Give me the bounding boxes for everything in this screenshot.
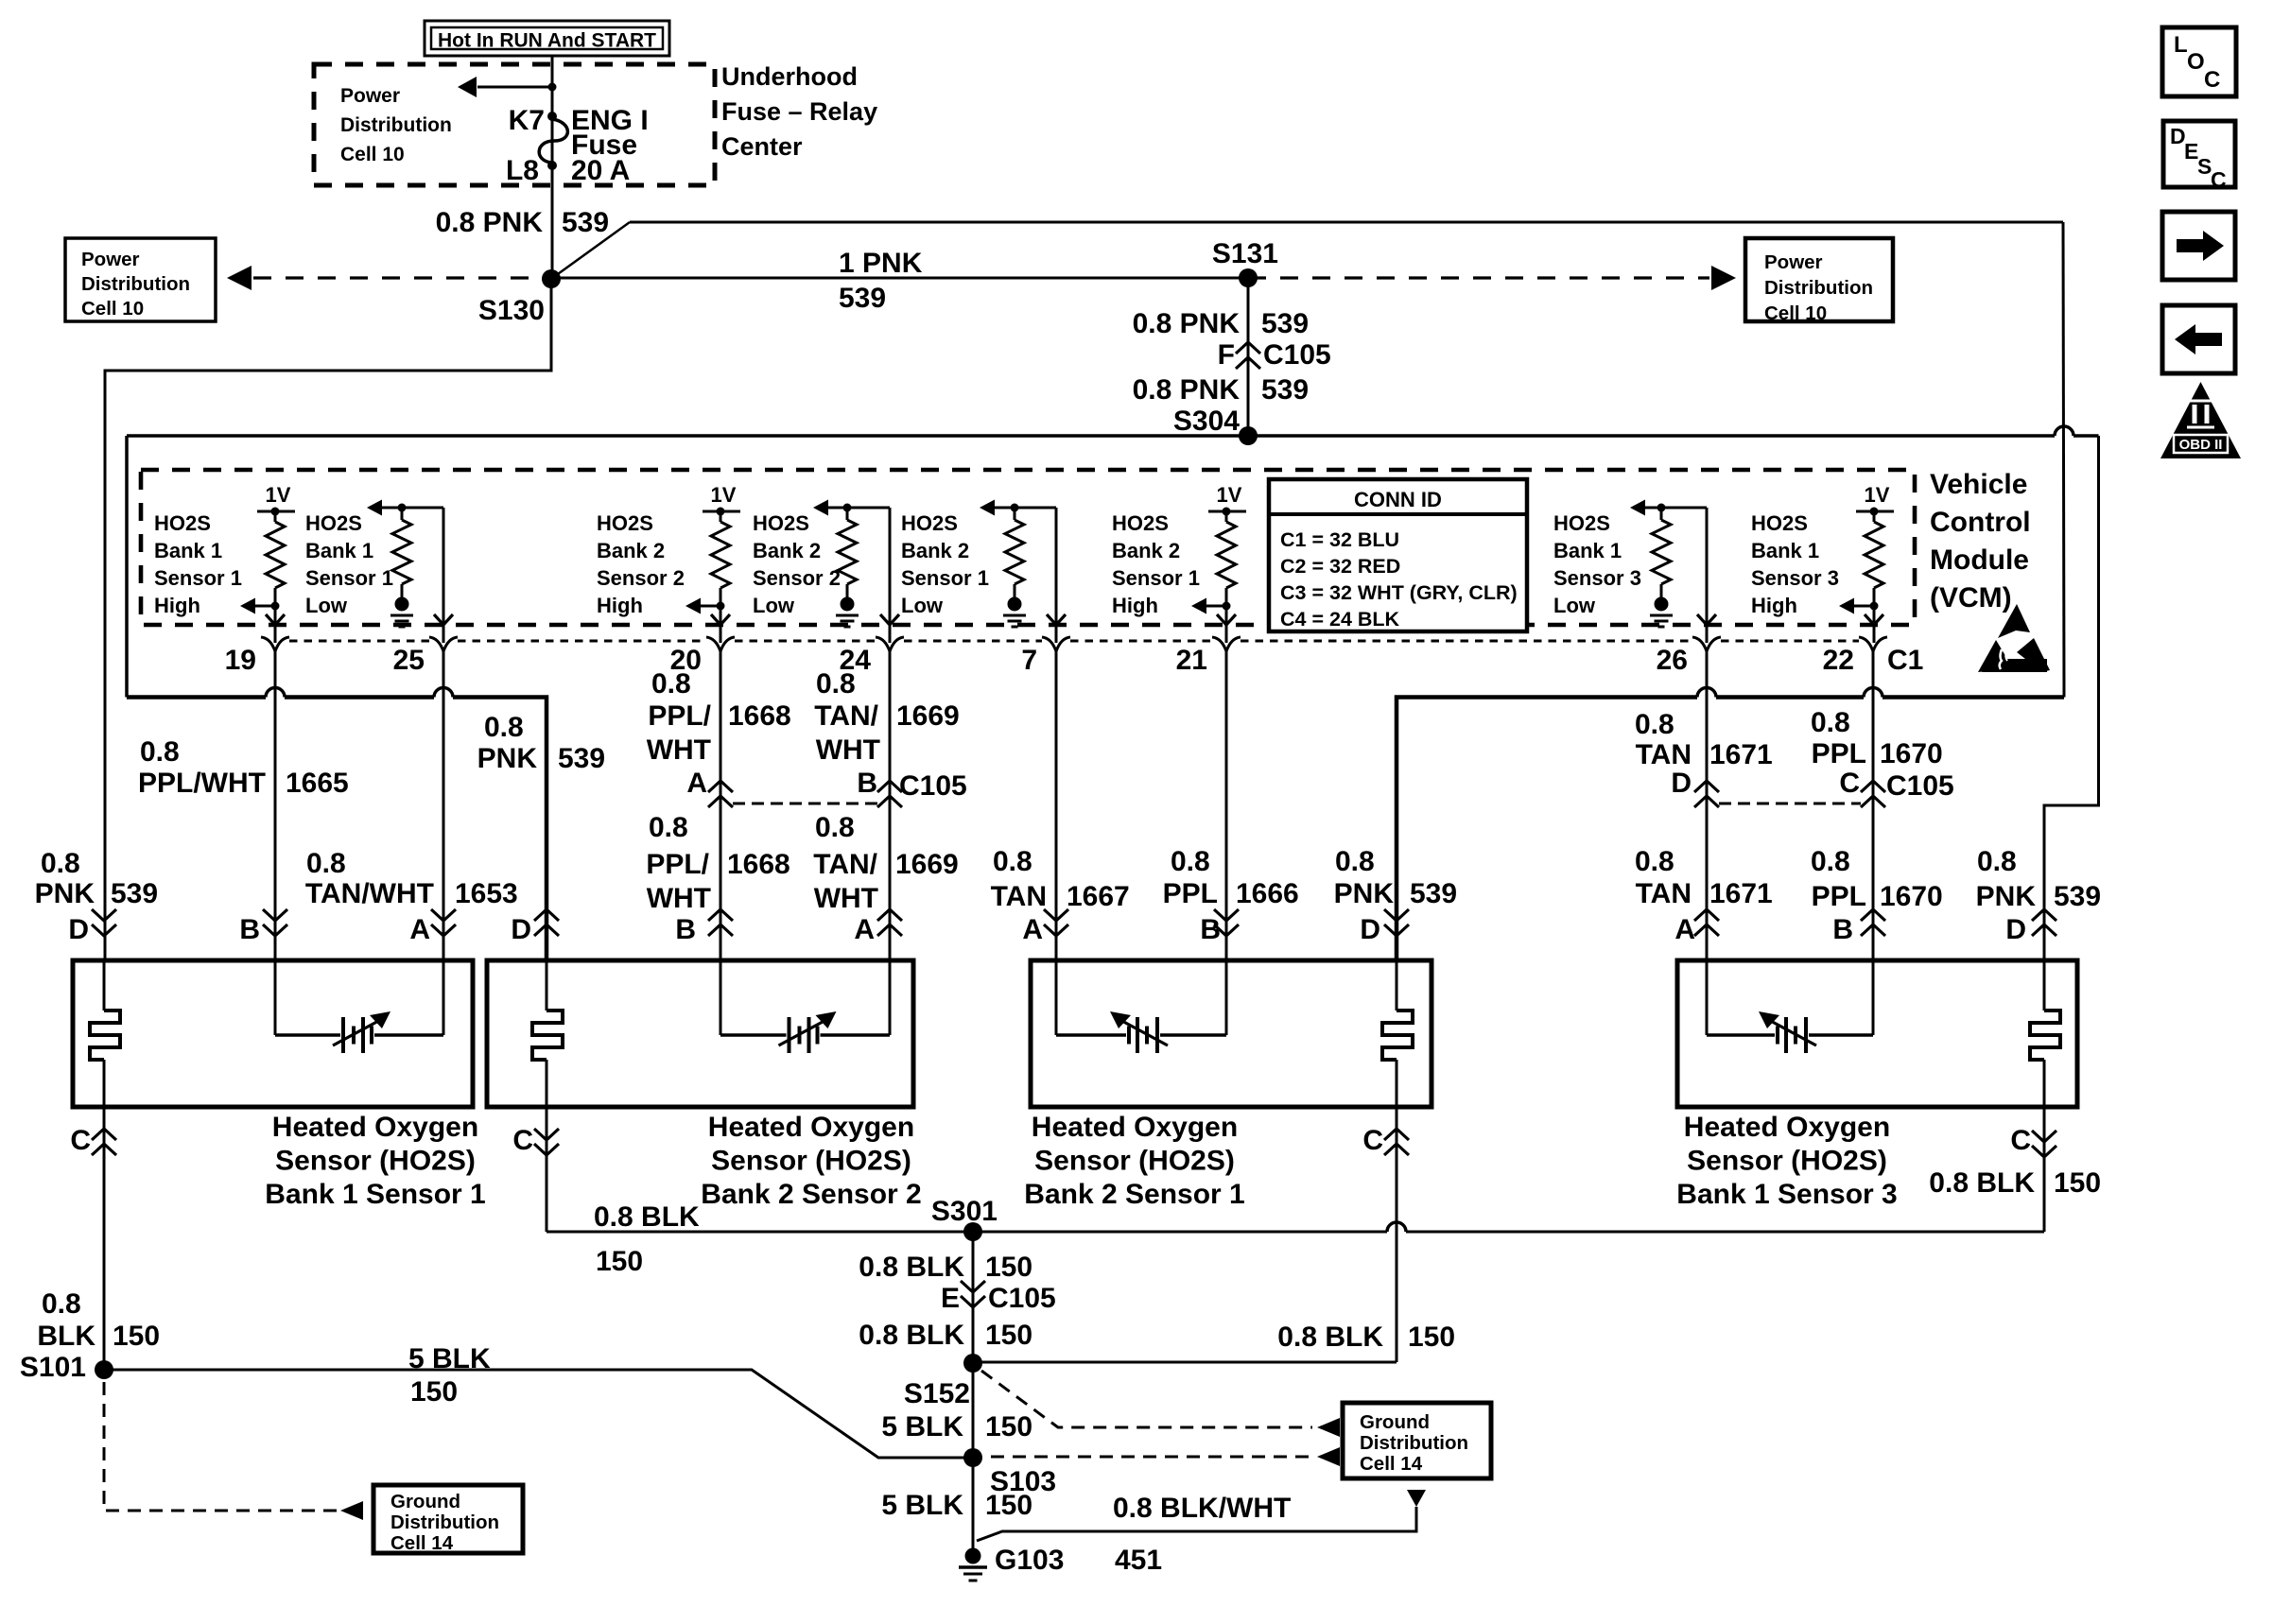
svg-text:0.8 PNK: 0.8 PNK: [1133, 374, 1241, 406]
svg-text:5 BLK: 5 BLK: [408, 1343, 491, 1374]
svg-text:Bank 2 Sensor 2: Bank 2 Sensor 2: [701, 1179, 921, 1210]
svg-text:HO2S: HO2S: [1553, 511, 1610, 535]
svg-text:Hot In RUN And START: Hot In RUN And START: [438, 30, 656, 52]
svg-text:0.8 BLK/WHT: 0.8 BLK/WHT: [1113, 1493, 1291, 1524]
svg-text:0.8: 0.8: [1811, 846, 1850, 877]
svg-text:Distribution: Distribution: [390, 1512, 499, 1533]
svg-text:WHT: WHT: [647, 734, 711, 766]
svg-text:26: 26: [1657, 645, 1688, 676]
svg-text:Sensor 2: Sensor 2: [597, 566, 685, 590]
svg-text:Low: Low: [901, 594, 944, 617]
svg-text:C1 = 32 BLU: C1 = 32 BLU: [1280, 528, 1399, 551]
svg-text:0.8 BLK: 0.8 BLK: [1929, 1167, 2035, 1199]
svg-text:PPL: PPL: [1163, 878, 1218, 909]
svg-text:1671: 1671: [1709, 739, 1773, 770]
svg-text:PNK: PNK: [477, 743, 538, 774]
svg-text:0.8: 0.8: [1635, 846, 1674, 877]
svg-text:Heated Oxygen: Heated Oxygen: [272, 1112, 478, 1143]
svg-text:High: High: [1112, 594, 1158, 617]
svg-text:Cell 10: Cell 10: [81, 298, 144, 320]
svg-text:HO2S: HO2S: [1112, 511, 1169, 535]
svg-text:Bank 1: Bank 1: [154, 539, 222, 562]
svg-text:D: D: [1360, 914, 1380, 945]
svg-text:TAN: TAN: [1636, 739, 1692, 770]
svg-text:(VCM): (VCM): [1930, 582, 2012, 613]
svg-text:Bank 1: Bank 1: [1751, 539, 1819, 562]
svg-text:S301: S301: [931, 1196, 998, 1227]
svg-text:HO2S: HO2S: [154, 511, 211, 535]
svg-text:G103: G103: [995, 1545, 1064, 1576]
svg-text:Module: Module: [1930, 544, 2029, 576]
svg-text:539: 539: [558, 743, 605, 774]
svg-text:OBD II: OBD II: [2179, 437, 2223, 453]
svg-text:Sensor (HO2S): Sensor (HO2S): [275, 1146, 476, 1177]
svg-text:150: 150: [985, 1320, 1032, 1351]
svg-text:539: 539: [111, 878, 158, 909]
svg-text:0.8: 0.8: [41, 848, 80, 879]
svg-text:Cell 14: Cell 14: [390, 1532, 454, 1554]
svg-text:150: 150: [985, 1252, 1032, 1283]
svg-text:Underhood: Underhood: [721, 62, 858, 91]
svg-text:C3 = 32 WHT (GRY, CLR): C3 = 32 WHT (GRY, CLR): [1280, 581, 1518, 604]
svg-text:Sensor 1: Sensor 1: [305, 566, 393, 590]
svg-text:22: 22: [1823, 645, 1854, 676]
svg-text:TAN: TAN: [991, 881, 1047, 912]
svg-text:1V: 1V: [266, 483, 291, 507]
svg-text:Sensor 1: Sensor 1: [901, 566, 989, 590]
svg-text:1V: 1V: [1865, 483, 1890, 507]
svg-text:150: 150: [113, 1321, 160, 1352]
svg-text:Bank 2: Bank 2: [1112, 539, 1180, 562]
svg-text:Distribution: Distribution: [340, 114, 452, 136]
svg-text:539: 539: [2054, 881, 2101, 912]
svg-text:HO2S: HO2S: [305, 511, 362, 535]
svg-text:Bank 1 Sensor 1: Bank 1 Sensor 1: [265, 1179, 485, 1210]
svg-text:Sensor 3: Sensor 3: [1553, 566, 1641, 590]
svg-text:WHT: WHT: [814, 883, 878, 914]
svg-text:D: D: [1671, 768, 1692, 799]
svg-text:Cell 10: Cell 10: [1764, 302, 1827, 324]
svg-text:1668: 1668: [728, 700, 791, 732]
svg-text:0.8: 0.8: [993, 846, 1032, 877]
svg-text:HO2S: HO2S: [1751, 511, 1808, 535]
svg-text:1669: 1669: [896, 700, 960, 732]
svg-text:Sensor 2: Sensor 2: [753, 566, 841, 590]
svg-text:Heated Oxygen: Heated Oxygen: [1684, 1112, 1890, 1143]
svg-text:1665: 1665: [286, 768, 349, 799]
svg-text:539: 539: [1261, 374, 1309, 406]
svg-text:Low: Low: [753, 594, 795, 617]
svg-text:1V: 1V: [711, 483, 737, 507]
svg-text:Bank 2: Bank 2: [753, 539, 821, 562]
svg-text:PPL/: PPL/: [648, 700, 711, 732]
svg-text:D: D: [68, 914, 89, 945]
svg-text:1666: 1666: [1236, 878, 1299, 909]
svg-text:CONN ID: CONN ID: [1354, 488, 1442, 511]
svg-text:C4 = 24 BLK: C4 = 24 BLK: [1280, 608, 1400, 631]
svg-text:0.8 BLK: 0.8 BLK: [859, 1320, 964, 1351]
svg-text:C: C: [70, 1125, 91, 1156]
svg-text:150: 150: [1408, 1322, 1455, 1353]
svg-text:S101: S101: [20, 1352, 86, 1383]
svg-text:451: 451: [1115, 1545, 1162, 1576]
svg-text:WHT: WHT: [647, 883, 711, 914]
svg-text:A: A: [854, 914, 875, 945]
svg-text:S304: S304: [1173, 406, 1240, 437]
svg-text:Distribution: Distribution: [1360, 1432, 1468, 1454]
svg-text:TAN/: TAN/: [814, 700, 878, 732]
svg-text:Low: Low: [1553, 594, 1596, 617]
svg-text:K7: K7: [509, 105, 545, 136]
svg-text:Fuse – Relay: Fuse – Relay: [721, 97, 877, 126]
svg-text:Distribution: Distribution: [1764, 277, 1873, 299]
svg-text:20 A: 20 A: [571, 155, 630, 186]
svg-text:0.8 BLK: 0.8 BLK: [594, 1201, 700, 1233]
svg-text:0.8: 0.8: [815, 812, 855, 843]
svg-text:A: A: [1674, 914, 1695, 945]
svg-text:5 BLK: 5 BLK: [881, 1490, 963, 1521]
svg-text:Bank 2: Bank 2: [597, 539, 665, 562]
svg-text:Bank 2 Sensor 1: Bank 2 Sensor 1: [1024, 1179, 1244, 1210]
svg-text:539: 539: [1261, 308, 1309, 339]
svg-text:1V: 1V: [1217, 483, 1242, 507]
svg-text:O: O: [2187, 49, 2205, 75]
svg-text:HO2S: HO2S: [753, 511, 809, 535]
svg-text:150: 150: [410, 1376, 458, 1408]
svg-text:Heated Oxygen: Heated Oxygen: [1032, 1112, 1238, 1143]
svg-text:C105: C105: [899, 770, 967, 802]
svg-text:Sensor 1: Sensor 1: [154, 566, 242, 590]
svg-text:0.8 PNK: 0.8 PNK: [436, 207, 544, 238]
svg-text:Ground: Ground: [1360, 1411, 1430, 1433]
svg-text:C105: C105: [988, 1283, 1056, 1314]
svg-text:B: B: [857, 768, 877, 799]
svg-text:Bank 1 Sensor 3: Bank 1 Sensor 3: [1676, 1179, 1897, 1210]
svg-text:150: 150: [596, 1246, 643, 1277]
svg-text:1671: 1671: [1709, 878, 1773, 909]
svg-text:BLK: BLK: [37, 1321, 95, 1352]
svg-text:0.8: 0.8: [1171, 846, 1210, 877]
svg-text:19: 19: [225, 645, 256, 676]
svg-text:1667: 1667: [1067, 881, 1130, 912]
svg-text:0.8: 0.8: [1977, 846, 2017, 877]
svg-text:0.8: 0.8: [816, 668, 856, 700]
svg-text:S152: S152: [904, 1378, 970, 1409]
svg-text:A: A: [686, 768, 707, 799]
svg-text:TAN/: TAN/: [813, 849, 877, 880]
svg-text:C105: C105: [1886, 770, 1954, 802]
svg-text:Power: Power: [1764, 251, 1823, 273]
svg-text:Bank 1: Bank 1: [305, 539, 373, 562]
svg-text:PPL: PPL: [1812, 738, 1866, 769]
svg-text:Sensor (HO2S): Sensor (HO2S): [1034, 1146, 1235, 1177]
svg-text:1669: 1669: [895, 849, 959, 880]
svg-text:High: High: [597, 594, 643, 617]
svg-text:C1: C1: [1887, 645, 1923, 676]
svg-text:A: A: [409, 914, 430, 945]
svg-text:PNK: PNK: [1976, 881, 2037, 912]
svg-text:Bank 2: Bank 2: [901, 539, 969, 562]
svg-text:S130: S130: [478, 295, 545, 326]
svg-text:0.8: 0.8: [140, 736, 180, 768]
svg-text:Bank 1: Bank 1: [1553, 539, 1622, 562]
svg-text:C: C: [2010, 1125, 2031, 1156]
svg-text:PPL/WHT: PPL/WHT: [138, 768, 266, 799]
svg-text:C: C: [2204, 67, 2220, 93]
svg-text:Ground: Ground: [390, 1491, 460, 1512]
svg-text:0.8: 0.8: [1635, 709, 1674, 740]
svg-text:0.8: 0.8: [1811, 707, 1850, 738]
svg-text:150: 150: [985, 1490, 1032, 1521]
svg-text:7: 7: [1021, 645, 1037, 676]
svg-text:1668: 1668: [727, 849, 790, 880]
svg-text:Vehicle: Vehicle: [1930, 469, 2027, 500]
svg-text:Cell 14: Cell 14: [1360, 1453, 1423, 1475]
svg-text:PNK: PNK: [1334, 878, 1395, 909]
svg-text:F: F: [1218, 339, 1235, 371]
svg-text:HO2S: HO2S: [597, 511, 653, 535]
svg-text:Distribution: Distribution: [81, 273, 190, 295]
svg-text:539: 539: [1410, 878, 1457, 909]
svg-text:0.8: 0.8: [484, 712, 524, 743]
svg-text:WHT: WHT: [816, 734, 880, 766]
svg-text:Sensor (HO2S): Sensor (HO2S): [711, 1146, 911, 1177]
svg-text:E: E: [941, 1283, 960, 1314]
svg-text:21: 21: [1176, 645, 1207, 676]
svg-text:Low: Low: [305, 594, 348, 617]
svg-text:PPL/: PPL/: [646, 849, 709, 880]
svg-text:Power: Power: [340, 85, 400, 107]
svg-text:539: 539: [562, 207, 609, 238]
svg-text:0.8: 0.8: [1335, 846, 1375, 877]
svg-text:PPL: PPL: [1812, 881, 1866, 912]
svg-text:D: D: [511, 914, 531, 945]
svg-text:A: A: [1022, 914, 1043, 945]
svg-text:B: B: [1832, 914, 1853, 945]
svg-text:150: 150: [2054, 1167, 2101, 1199]
svg-text:High: High: [154, 594, 200, 617]
svg-text:Center: Center: [721, 132, 803, 161]
svg-text:0.8 PNK: 0.8 PNK: [1133, 308, 1241, 339]
svg-text:Cell 10: Cell 10: [340, 144, 405, 165]
svg-text:C: C: [1362, 1125, 1383, 1156]
svg-text:1670: 1670: [1880, 738, 1943, 769]
svg-text:HO2S: HO2S: [901, 511, 958, 535]
svg-text:1670: 1670: [1880, 881, 1943, 912]
svg-text:Sensor 3: Sensor 3: [1751, 566, 1839, 590]
svg-text:TAN: TAN: [1636, 878, 1692, 909]
svg-text:B: B: [675, 914, 696, 945]
svg-text:TAN/WHT: TAN/WHT: [305, 878, 434, 909]
svg-text:C: C: [1839, 768, 1860, 799]
svg-text:C: C: [512, 1125, 533, 1156]
svg-text:0.8: 0.8: [42, 1288, 81, 1320]
svg-text:S131: S131: [1212, 238, 1278, 269]
svg-text:B: B: [239, 914, 260, 945]
svg-text:Control: Control: [1930, 507, 2031, 538]
svg-text:D: D: [2005, 914, 2026, 945]
svg-text:0.8: 0.8: [651, 668, 691, 700]
svg-text:0.8 BLK: 0.8 BLK: [1277, 1322, 1383, 1353]
svg-text:Sensor (HO2S): Sensor (HO2S): [1687, 1146, 1887, 1177]
svg-text:C2 = 32 RED: C2 = 32 RED: [1280, 555, 1400, 578]
svg-text:C: C: [2211, 167, 2227, 192]
svg-text:C105: C105: [1263, 339, 1331, 371]
svg-text:L8: L8: [506, 155, 539, 186]
svg-text:0.8: 0.8: [306, 848, 346, 879]
svg-text:150: 150: [985, 1411, 1032, 1443]
svg-text:L: L: [2174, 32, 2188, 58]
svg-text:1653: 1653: [455, 878, 518, 909]
svg-text:539: 539: [839, 283, 886, 314]
svg-text:25: 25: [393, 645, 425, 676]
svg-text:Power: Power: [81, 249, 140, 270]
svg-text:1 PNK: 1 PNK: [839, 248, 923, 279]
svg-text:Sensor 1: Sensor 1: [1112, 566, 1200, 590]
svg-text:5 BLK: 5 BLK: [881, 1411, 963, 1443]
svg-text:PNK: PNK: [35, 878, 95, 909]
svg-text:Heated Oxygen: Heated Oxygen: [708, 1112, 914, 1143]
svg-text:0.8 BLK: 0.8 BLK: [859, 1252, 964, 1283]
svg-text:0.8: 0.8: [649, 812, 688, 843]
svg-text:High: High: [1751, 594, 1797, 617]
